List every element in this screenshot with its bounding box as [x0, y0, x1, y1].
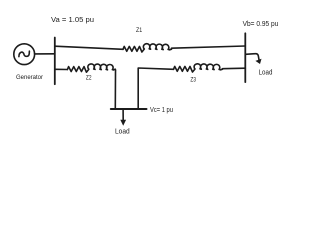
- svg-text:Z2: Z2: [86, 75, 92, 82]
- wire generator to bus A: [35, 53, 55, 55]
- wire bus A to Z1: [55, 46, 123, 49]
- wire bus C riser to Z3: [138, 68, 173, 109]
- svg-text:Z1: Z1: [136, 27, 142, 34]
- inductor Z3: [174, 64, 223, 72]
- svg-text:Z3: Z3: [190, 76, 196, 83]
- wire Z1 to bus B: [172, 46, 246, 48]
- arrowhead load C: [120, 120, 126, 126]
- wire Z2 to bus C riser: [114, 69, 116, 109]
- generator AC sine symbol: [19, 51, 30, 56]
- bus B: [244, 33, 246, 82]
- generator G1: [14, 44, 35, 65]
- inductor Z2: [67, 64, 114, 72]
- inductor Z1: [123, 44, 171, 52]
- svg-text:Vb= 0.95 pu: Vb= 0.95 pu: [243, 19, 279, 28]
- wire bus A to Z2: [55, 68, 68, 70]
- svg-text:Load: Load: [115, 129, 130, 136]
- svg-text:Generator: Generator: [16, 74, 44, 81]
- svg-text:Load: Load: [259, 69, 273, 76]
- wire Z3 to bus B: [223, 67, 246, 70]
- load arrow at bus C: [122, 110, 124, 122]
- svg-text:Va = 1.05 pu: Va = 1.05 pu: [51, 15, 94, 24]
- bus A: [54, 38, 56, 85]
- bus C: [111, 108, 147, 110]
- arrowhead load B: [255, 59, 261, 64]
- svg-text:Vc= 1 pu: Vc= 1 pu: [150, 105, 173, 114]
- load arrow at bus B: [246, 54, 260, 61]
